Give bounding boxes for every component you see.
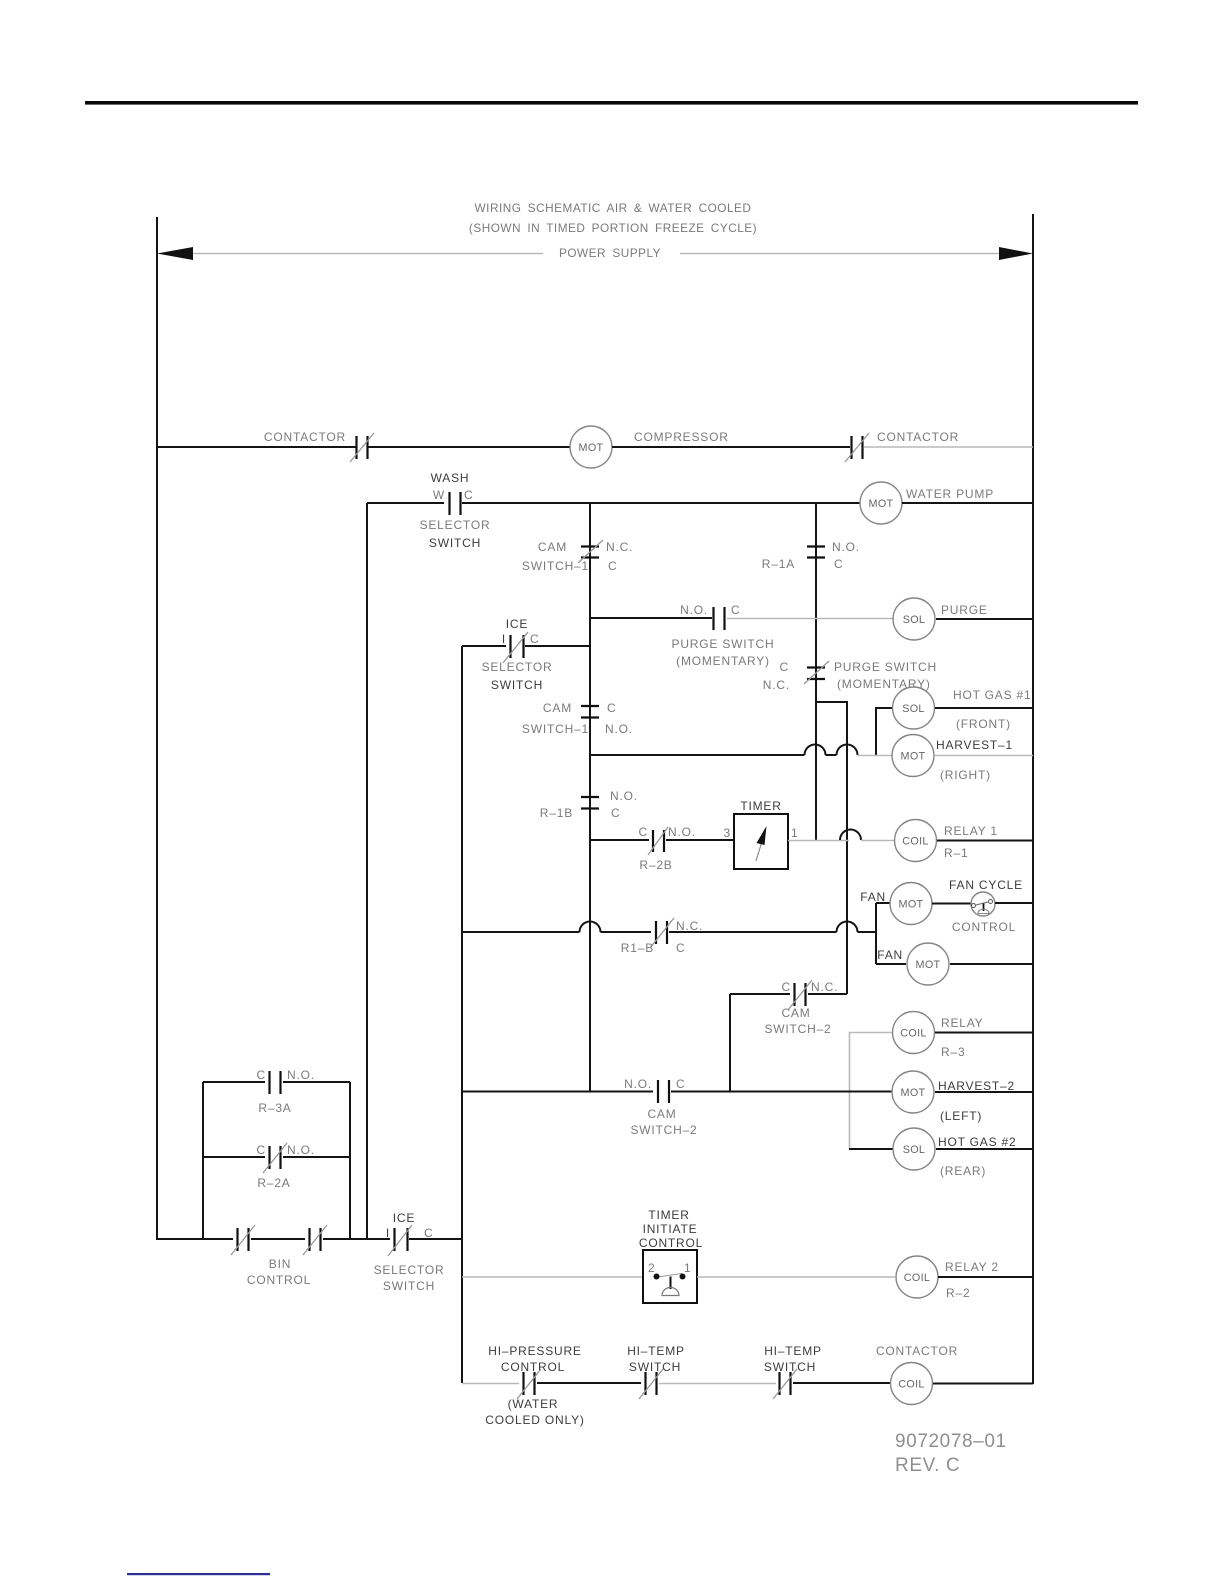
wire hop over x=816 <box>805 745 826 756</box>
motor U-compressor MOT <box>570 426 612 468</box>
wire harvest-1 rung left segment <box>590 754 805 756</box>
svg-text:C: C <box>611 806 620 820</box>
wire jog from x=816 to x=847 <box>816 702 847 994</box>
svg-text:1: 1 <box>684 1261 691 1275</box>
hi-pressure control contact (N.C.) <box>517 1369 541 1399</box>
wire R-2A rung right <box>283 1156 350 1158</box>
wire parallel box right vertical x=350 <box>349 1082 351 1240</box>
motor harvest-1 MOT <box>892 735 934 777</box>
contactor contact left (N.C.) <box>350 433 374 462</box>
wire hop over x=847 on timer rung <box>840 830 861 841</box>
svg-text:(LEFT): (LEFT) <box>940 1109 982 1123</box>
wire cam switch-2 rung to x=847 <box>808 993 847 995</box>
wire cam switch-2 branch vertical x=730 <box>729 994 731 1091</box>
wire to fan motor 1 <box>876 902 890 904</box>
svg-text:SELECTOR: SELECTOR <box>374 1263 445 1277</box>
svg-text:(MOMENTARY): (MOMENTARY) <box>676 654 770 668</box>
svg-text:1: 1 <box>791 826 798 840</box>
hi-temp switch 2 contact (N.C.) <box>773 1369 797 1399</box>
svg-text:WIRING SCHEMATIC AIR & WATER C: WIRING SCHEMATIC AIR & WATER COOLED <box>475 201 752 215</box>
svg-text:C: C <box>676 941 685 955</box>
timer clock hand <box>756 826 767 861</box>
svg-text:R–3: R–3 <box>941 1045 965 1059</box>
svg-text:POWER SUPPLY: POWER SUPPLY <box>559 246 661 260</box>
cam switch-2 contact (N.C.) <box>788 980 812 1010</box>
wire timer rung to coil <box>861 840 894 842</box>
wire R-3A rung y=1082 <box>203 1081 265 1083</box>
wire bin rung to ice selector <box>323 1238 390 1240</box>
wire hop over x=847 on fan rung <box>837 922 858 932</box>
wire coil R-2 to right rail <box>938 1276 1033 1278</box>
svg-text:PURGE: PURGE <box>941 603 988 617</box>
svg-text:N.C.: N.C. <box>811 980 838 994</box>
wire fan rung mid segment <box>669 931 837 933</box>
wire harvest-1 to right rail <box>934 755 1033 757</box>
svg-text:SWITCH–2: SWITCH–2 <box>764 1022 831 1036</box>
svg-text:R–2B: R–2B <box>639 858 672 872</box>
svg-text:CONTACTOR: CONTACTOR <box>264 430 346 444</box>
wire hot gas #2 rung y=1149 <box>849 1148 893 1150</box>
svg-text:HOT GAS #2: HOT GAS #2 <box>938 1135 1016 1149</box>
relay contact R1-B (N.C.) <box>650 918 674 948</box>
wire harvest-2 rung mid segment <box>671 1091 892 1093</box>
svg-text:SWITCH–2: SWITCH–2 <box>630 1123 697 1137</box>
svg-text:WATER PUMP: WATER PUMP <box>906 487 994 501</box>
wire rung2 to right rail <box>902 502 1033 504</box>
selector switch ICE contact (with slash) <box>503 632 528 663</box>
svg-text:C: C <box>780 660 789 674</box>
wire hot gas #2 to right rail <box>936 1148 1033 1150</box>
wire bin control rung y=1239 left <box>157 1238 233 1240</box>
svg-text:SELECTOR: SELECTOR <box>482 660 553 674</box>
svg-text:CAM: CAM <box>647 1107 676 1121</box>
svg-text:PURGE SWITCH: PURGE SWITCH <box>672 637 775 651</box>
wire coil R-3 to right rail <box>935 1032 1033 1034</box>
svg-text:N.O.: N.O. <box>832 540 860 554</box>
svg-text:SWITCH: SWITCH <box>383 1279 435 1293</box>
relay contact R-2B (N.O. slashed) <box>648 827 668 855</box>
svg-text:R–1: R–1 <box>944 846 968 860</box>
svg-text:C: C <box>639 825 648 839</box>
svg-text:FAN CYCLE: FAN CYCLE <box>949 878 1023 892</box>
wire rung1 mid segment <box>368 446 570 448</box>
wire parallel box left vertical x=203 <box>202 1082 204 1240</box>
timer initiate control box <box>643 1250 697 1303</box>
svg-text:N.O.: N.O. <box>605 722 633 736</box>
svg-text:RELAY: RELAY <box>941 1016 983 1030</box>
timer initiate control internals <box>654 1274 686 1296</box>
svg-text:R–2: R–2 <box>946 1286 970 1300</box>
svg-text:C: C <box>834 557 843 571</box>
cam switch-1 contact (N.O.) on vertical <box>581 706 599 718</box>
wire hot gas #1 to right rail <box>935 707 1033 709</box>
power supply right arrowhead <box>999 247 1033 260</box>
wire fan rung to R1-B contact <box>601 931 652 933</box>
coil relay 3 COIL <box>893 1012 935 1054</box>
purge switch contact (N.O. momentary) <box>714 607 725 630</box>
hi-temp switch 1 contact (N.C.) <box>639 1369 663 1399</box>
wire center column vertical x=590 <box>589 503 591 1091</box>
wire rung1 to right rail <box>864 446 1033 448</box>
wire purge rung to right rail <box>936 618 1033 620</box>
wire bottom rung segment 3 (gray) <box>659 1383 776 1385</box>
svg-text:CAM: CAM <box>543 701 572 715</box>
svg-text:C: C <box>464 488 473 502</box>
wire hop over x=590 <box>580 922 601 932</box>
wire harvest-2 to right rail <box>935 1091 1033 1093</box>
wire bottom rung segment 4 <box>793 1382 890 1384</box>
wire fan rung y=932 left segment <box>462 931 580 933</box>
selector switch ICE contact (bottom, slashed) <box>388 1225 412 1256</box>
wire bottom rung y=1383 left (gray) <box>462 1383 519 1385</box>
svg-text:ICE: ICE <box>506 617 528 631</box>
svg-text:R1–B: R1–B <box>621 941 654 955</box>
page top rule <box>85 101 1138 105</box>
svg-text:SWITCH: SWITCH <box>764 1360 816 1374</box>
svg-text:CONTACTOR: CONTACTOR <box>876 1344 958 1358</box>
svg-text:MOT: MOT <box>579 442 604 454</box>
coil contactor COIL <box>891 1363 933 1405</box>
right power rail <box>1032 214 1034 1384</box>
wire harvest-1 rung to motor <box>858 755 893 757</box>
svg-text:SWITCH: SWITCH <box>491 678 543 692</box>
wire to fan motor 2 <box>876 963 906 965</box>
svg-text:SOL: SOL <box>903 614 926 626</box>
svg-text:MOT: MOT <box>901 1087 926 1099</box>
motor fan 2 MOT <box>907 943 949 985</box>
svg-text:INITIATE: INITIATE <box>643 1222 698 1236</box>
wire fan motor 2 to right rail <box>950 963 1033 965</box>
wire ice selector branch vertical x=462 <box>461 646 463 1383</box>
wire harvest-2 rung y=1091 left segment <box>462 1091 653 1093</box>
contactor contact right (N.C.) <box>845 433 869 462</box>
svg-text:C: C <box>257 1143 266 1157</box>
svg-text:(REAR): (REAR) <box>940 1164 986 1178</box>
svg-text:SOL: SOL <box>903 1144 926 1156</box>
svg-text:N.C.: N.C. <box>676 919 703 933</box>
svg-text:N.O.: N.O. <box>287 1068 315 1082</box>
svg-text:C: C <box>731 603 740 617</box>
svg-text:C: C <box>530 632 539 646</box>
wire rung1 right segment <box>612 446 850 448</box>
power supply left arrowhead <box>157 247 193 260</box>
svg-text:WASH: WASH <box>431 471 470 485</box>
svg-text:(SHOWN IN TIMED PORTION FREEZE: (SHOWN IN TIMED PORTION FREEZE CYCLE) <box>469 221 757 235</box>
svg-text:N.C.: N.C. <box>606 540 633 554</box>
svg-text:R–1B: R–1B <box>540 806 573 820</box>
svg-text:C: C <box>608 559 617 573</box>
svg-text:HI–TEMP: HI–TEMP <box>627 1344 685 1358</box>
svg-text:(RIGHT): (RIGHT) <box>940 768 991 782</box>
wire purge switch rung y=618 <box>590 617 712 619</box>
timer TIMER box <box>734 814 788 869</box>
wire bottom rung segment 2 <box>537 1382 641 1384</box>
wire ice selector rung y=646 <box>462 645 506 647</box>
svg-text:N.C.: N.C. <box>763 678 790 692</box>
svg-text:C: C <box>782 980 791 994</box>
cam switch-1 contact (N.C.) on vertical <box>578 540 603 563</box>
svg-text:COIL: COIL <box>902 836 928 848</box>
svg-text:HOT GAS #1: HOT GAS #1 <box>953 688 1031 702</box>
svg-text:N.O.: N.O. <box>668 825 696 839</box>
wire cam switch-2 N.C. rung y=994 <box>730 993 790 995</box>
svg-text:RELAY 2: RELAY 2 <box>945 1260 999 1274</box>
svg-text:PURGE SWITCH: PURGE SWITCH <box>834 660 937 674</box>
svg-text:I: I <box>386 1226 390 1240</box>
wire fan branch vertical x=876 <box>875 903 877 964</box>
svg-text:W: W <box>433 488 445 502</box>
purge switch contact (N.C. momentary) on vertical x=816 <box>804 661 829 684</box>
footer link line <box>127 1573 270 1575</box>
svg-text:(FRONT): (FRONT) <box>956 717 1011 731</box>
wire wash branch vertical <box>366 503 368 1240</box>
coil relay 2 COIL <box>896 1256 938 1298</box>
svg-text:COIL: COIL <box>898 1379 924 1391</box>
svg-text:R–1A: R–1A <box>762 557 795 571</box>
solenoid purge SOL <box>893 598 935 640</box>
thermostat fan cycle control <box>971 892 995 916</box>
selector switch WASH contact <box>450 492 461 515</box>
coil relay 1 COIL <box>895 820 937 862</box>
wire hot gas #1 branch <box>876 708 892 755</box>
wire timer rung y=840 left <box>590 839 649 841</box>
bin control contact 2 (N.C.) <box>303 1225 327 1255</box>
svg-text:COIL: COIL <box>900 1028 926 1040</box>
svg-text:(WATER: (WATER <box>508 1397 559 1411</box>
wire fan cycle control to right rail <box>995 902 1033 904</box>
svg-text:HARVEST–2: HARVEST–2 <box>938 1079 1015 1093</box>
wire power supply line <box>193 253 1000 255</box>
svg-text:TIMER: TIMER <box>740 799 781 813</box>
cam switch-2 contact (N.O.) <box>658 1080 669 1103</box>
wire purge rung to solenoid <box>727 618 893 620</box>
left power rail <box>156 217 158 1240</box>
svg-text:N.O.: N.O. <box>624 1077 652 1091</box>
svg-text:2: 2 <box>648 1261 655 1275</box>
svg-text:CONTROL: CONTROL <box>639 1236 703 1250</box>
svg-text:MOT: MOT <box>899 899 924 911</box>
solenoid hot gas #2 SOL <box>893 1128 935 1170</box>
wire R-2B to timer <box>666 839 734 841</box>
svg-text:MOT: MOT <box>869 498 894 510</box>
svg-text:REV. C: REV. C <box>895 1455 960 1476</box>
wire bin rung mid <box>251 1238 305 1240</box>
svg-text:ICE: ICE <box>393 1211 415 1225</box>
wire timer output <box>788 840 849 842</box>
relay contact R-1B (N.O.) on vertical <box>581 797 599 809</box>
svg-text:SWITCH–1: SWITCH–1 <box>522 722 589 736</box>
wire between hops <box>826 754 837 756</box>
relay contact R-1A (N.O.) <box>807 547 825 558</box>
wire hop over x=847 <box>837 745 858 756</box>
wire contactor coil to right rail <box>933 1383 1033 1385</box>
svg-text:N.O.: N.O. <box>287 1143 315 1157</box>
wire relay-2 rung y=1277 left (gray) <box>462 1276 643 1278</box>
svg-text:SOL: SOL <box>902 703 925 715</box>
svg-text:COMPRESSOR: COMPRESSOR <box>634 430 729 444</box>
svg-text:C: C <box>676 1077 685 1091</box>
svg-text:SWITCH: SWITCH <box>429 536 481 550</box>
bin control contact 1 (N.C.) <box>231 1225 255 1255</box>
svg-text:CONTACTOR: CONTACTOR <box>877 430 959 444</box>
svg-text:CONTROL: CONTROL <box>247 1273 311 1287</box>
motor water pump MOT <box>860 482 902 524</box>
wire fan rung to fan branch <box>858 931 877 933</box>
wire relay-2 rung mid (gray) <box>697 1276 895 1278</box>
svg-text:N.O.: N.O. <box>680 603 708 617</box>
svg-text:FAN: FAN <box>877 948 903 962</box>
svg-text:RELAY 1: RELAY 1 <box>944 824 998 838</box>
svg-text:CAM: CAM <box>781 1006 810 1020</box>
wire coil R-1 to right rail <box>937 840 1033 842</box>
wire R-2A rung y=1157 <box>203 1156 265 1158</box>
svg-text:CONTROL: CONTROL <box>501 1360 565 1374</box>
wire fan motor 1 to fan cycle control <box>932 903 971 905</box>
relay contact R-2A (N.O. slashed) <box>263 1143 287 1173</box>
svg-text:SELECTOR: SELECTOR <box>420 518 491 532</box>
wire ice selector to vertical x=462 <box>409 1238 462 1240</box>
svg-text:9072078–01: 9072078–01 <box>895 1431 1007 1452</box>
wire R-3A rung right <box>283 1081 350 1083</box>
svg-text:R–3A: R–3A <box>258 1101 291 1115</box>
wire ice rung to center column <box>525 645 590 647</box>
solenoid hot gas #1 SOL <box>893 687 935 729</box>
wire rung2 mid segment <box>462 502 860 504</box>
svg-text:I: I <box>502 632 506 646</box>
svg-text:3: 3 <box>724 826 731 840</box>
svg-text:COOLED ONLY): COOLED ONLY) <box>485 1413 584 1427</box>
svg-text:TIMER: TIMER <box>648 1208 689 1222</box>
svg-text:C: C <box>257 1068 266 1082</box>
svg-text:CAM: CAM <box>538 540 567 554</box>
svg-text:C: C <box>607 701 616 715</box>
motor harvest-2 MOT <box>892 1071 934 1113</box>
svg-text:BIN: BIN <box>269 1257 291 1271</box>
svg-text:HI–PRESSURE: HI–PRESSURE <box>488 1344 582 1358</box>
svg-text:MOT: MOT <box>901 751 926 763</box>
svg-text:N.O.: N.O. <box>610 789 638 803</box>
svg-text:MOT: MOT <box>916 959 941 971</box>
motor fan 1 MOT <box>890 883 932 925</box>
wire rung1 left segment <box>157 446 356 448</box>
wire rung2 left segment <box>367 502 444 504</box>
svg-text:COIL: COIL <box>904 1272 930 1284</box>
wire coil R-3 branch (gray) <box>850 1033 893 1150</box>
svg-text:SWITCH–1: SWITCH–1 <box>522 559 589 573</box>
svg-text:C: C <box>424 1226 433 1240</box>
svg-text:HARVEST–1: HARVEST–1 <box>936 738 1013 752</box>
relay contact R-1A branch vertical x=816 <box>815 503 817 840</box>
svg-text:CONTROL: CONTROL <box>952 920 1016 934</box>
relay contact R-3A (N.O.) <box>270 1071 281 1094</box>
svg-text:HI–TEMP: HI–TEMP <box>764 1344 822 1358</box>
svg-text:R–2A: R–2A <box>257 1176 290 1190</box>
svg-text:FAN: FAN <box>860 890 886 904</box>
svg-text:SWITCH: SWITCH <box>629 1360 681 1374</box>
